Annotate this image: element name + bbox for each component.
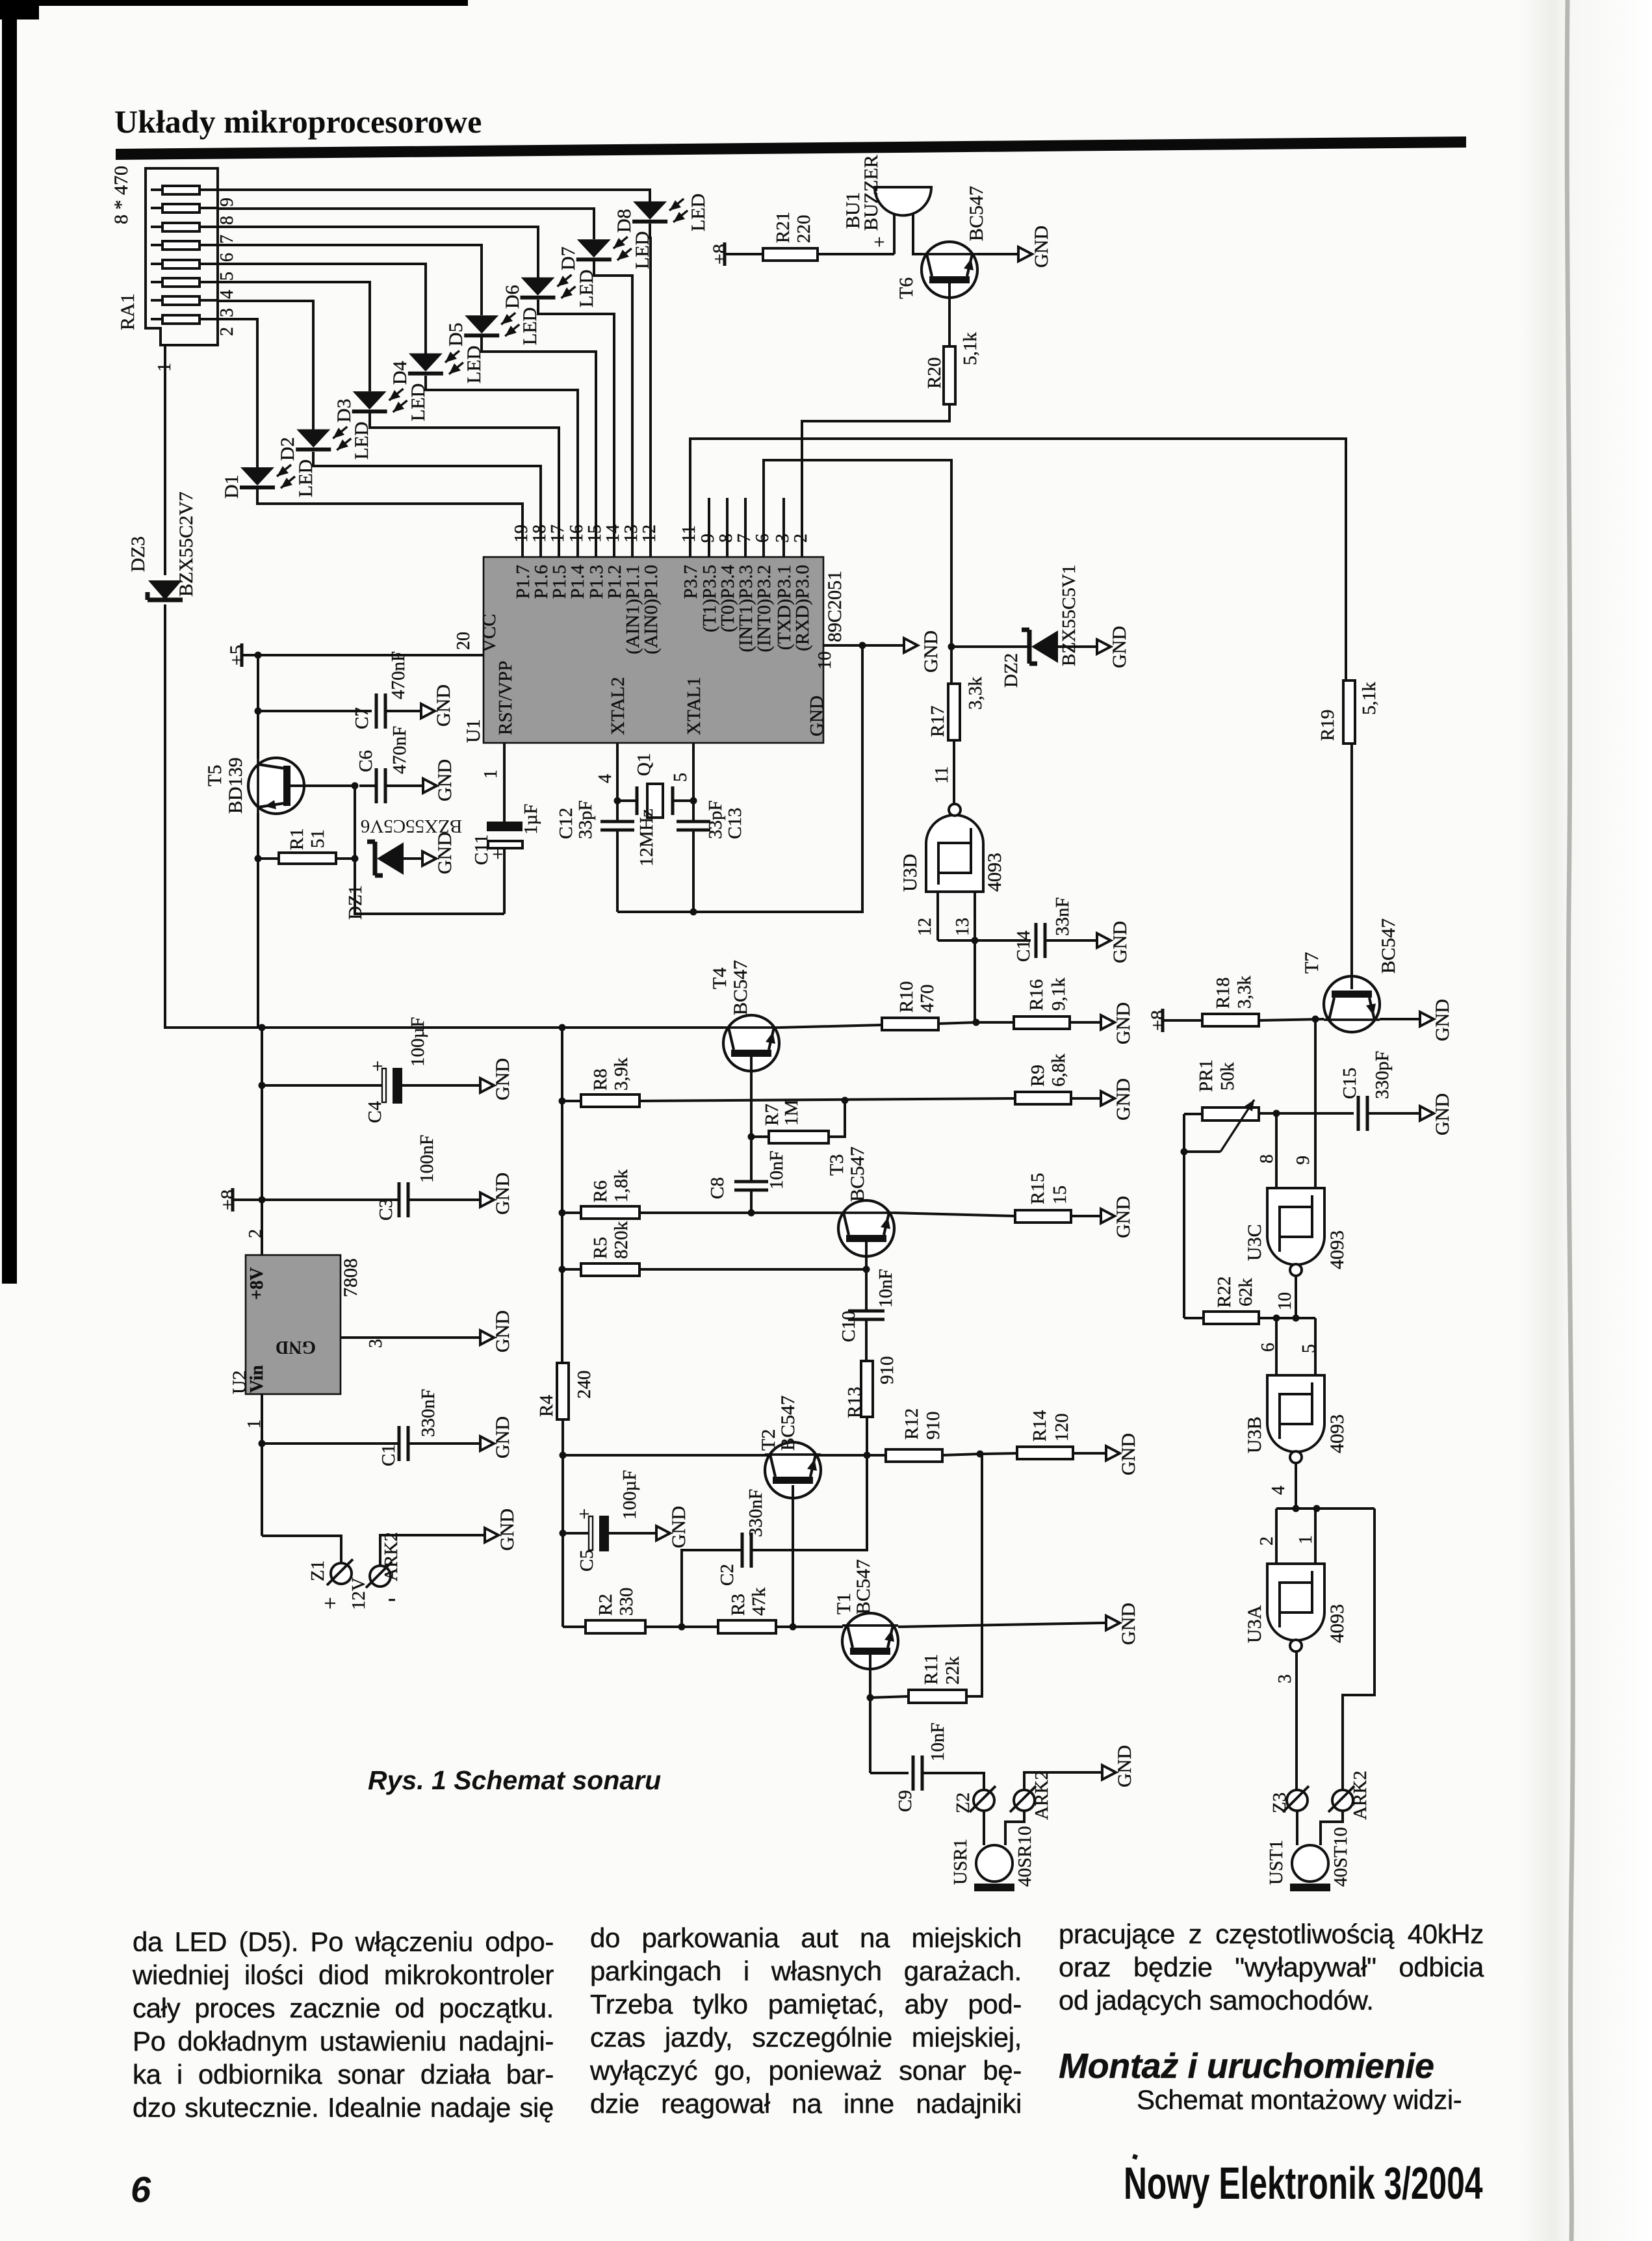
svg-text:10nF: 10nF: [927, 1722, 948, 1761]
svg-text:9: 9: [698, 534, 718, 543]
LED D4: [218, 264, 578, 557]
pin 15 number: [585, 525, 605, 543]
svg-text:62k: 62k: [1235, 1278, 1256, 1306]
svg-text:12: 12: [639, 525, 660, 543]
R19 to T7 base: [1350, 744, 1353, 989]
ground C4: [476, 1058, 513, 1100]
wire pin 6 to node: [764, 460, 951, 647]
resistor R14 120: [980, 1410, 1102, 1459]
svg-text:GND: GND: [1118, 1433, 1139, 1475]
+8 supply right: [1147, 1009, 1202, 1032]
svg-text:GND: GND: [497, 1509, 518, 1551]
svg-text:C12: C12: [556, 808, 576, 839]
ground DZ2: [1093, 626, 1130, 668]
pin 14 number: [603, 525, 623, 543]
svg-text:U3C: U3C: [1244, 1224, 1265, 1261]
svg-text:R7: R7: [762, 1104, 782, 1126]
svg-text:Z2: Z2: [953, 1793, 974, 1813]
svg-text:RA1: RA1: [117, 293, 138, 330]
pin1 to rail: [503, 848, 506, 914]
C15 row: [1259, 1110, 1354, 1117]
svg-text:D4: D4: [389, 361, 411, 385]
svg-text:2: 2: [246, 1229, 266, 1238]
gate U3B 4093: [1244, 1375, 1348, 1463]
capacitor C15 330pF: [1339, 1051, 1416, 1131]
pin 6 label: [753, 534, 773, 543]
svg-text:GND: GND: [1118, 1603, 1139, 1645]
svg-text:89C2051: 89C2051: [824, 571, 845, 642]
svg-text:GND: GND: [276, 1337, 316, 1357]
IC U2 7808: [229, 1255, 361, 1394]
resistor R12 910: [886, 1408, 984, 1462]
svg-text:R11: R11: [921, 1654, 942, 1685]
svg-text:+: +: [493, 844, 504, 865]
svg-text:2: 2: [1257, 1536, 1277, 1546]
wire C6 to R1 node: [352, 786, 359, 862]
svg-text:ARK2: ARK2: [1031, 1770, 1052, 1820]
svg-text:R2: R2: [595, 1594, 616, 1616]
T3 emitter to R15: [894, 1213, 1015, 1216]
pin 13 number: [621, 525, 641, 543]
header rule: [116, 136, 1466, 160]
svg-text:8: 8: [1257, 1154, 1277, 1163]
svg-text:BC547: BC547: [847, 1146, 868, 1202]
svg-text:40ST10: 40ST10: [1330, 1827, 1351, 1887]
svg-text:50k: 50k: [1217, 1062, 1238, 1091]
svg-text:XTAL2: XTAL2: [608, 677, 628, 736]
svg-text:4093: 4093: [1326, 1230, 1348, 1269]
svg-text:BD139: BD139: [225, 757, 246, 814]
svg-text:5,1k: 5,1k: [960, 332, 981, 365]
body text column 1: [133, 1925, 554, 2124]
svg-text:C9: C9: [895, 1790, 916, 1812]
LED D1: [218, 319, 523, 557]
svg-text:C4: C4: [365, 1101, 385, 1123]
svg-text:C15: C15: [1339, 1068, 1360, 1099]
pin 4 lead: [595, 743, 617, 801]
svg-text:12MHz: 12MHz: [636, 809, 657, 866]
svg-text:GND: GND: [1432, 999, 1453, 1041]
svg-text:330: 330: [616, 1588, 637, 1616]
potentiometer PR1 50k: [1184, 1059, 1259, 1152]
svg-text:T1: T1: [833, 1593, 855, 1614]
transducer USR1 40SR10: [950, 1811, 1035, 1891]
crystal Q1 12MHz: [614, 753, 697, 866]
svg-text:3: 3: [217, 308, 237, 317]
capacitor C8 10nF: [707, 1137, 787, 1217]
svg-text:8: 8: [716, 534, 736, 543]
svg-text:GND: GND: [1113, 1078, 1134, 1120]
ground pin10: [815, 630, 942, 673]
svg-text:C3: C3: [376, 1198, 396, 1221]
terminal Z2: [953, 1786, 996, 1813]
ground Z2: [1098, 1745, 1135, 1787]
pin 12 number: [639, 525, 660, 543]
transistor T5 BD139: [204, 757, 304, 814]
svg-text:R1: R1: [287, 828, 307, 850]
svg-text:100nF: 100nF: [417, 1135, 437, 1183]
transistor T3 BC547: [826, 1146, 894, 1256]
LED D8: [218, 190, 709, 557]
wire C14 node down: [974, 940, 976, 1022]
svg-text:4: 4: [1269, 1486, 1289, 1495]
terminal Z3: [1269, 1786, 1309, 1813]
pin 3 stub: [773, 498, 793, 557]
svg-text:T2: T2: [758, 1429, 779, 1451]
svg-text:10nF: 10nF: [875, 1269, 896, 1308]
svg-text:910: 910: [923, 1412, 944, 1440]
svg-text:470nF: 470nF: [389, 726, 410, 774]
T5 base wire: [290, 783, 359, 790]
pin 19 number: [511, 525, 532, 543]
svg-text:10: 10: [815, 651, 835, 669]
svg-text:33nF: 33nF: [1052, 897, 1073, 936]
svg-text:UST1: UST1: [1266, 1840, 1287, 1885]
svg-text:13: 13: [621, 525, 641, 543]
svg-text:VCC: VCC: [479, 614, 500, 653]
pin 9 stub: [698, 498, 718, 557]
LED D3: [218, 282, 559, 557]
svg-text:C1: C1: [378, 1444, 399, 1466]
svg-text:1,8k: 1,8k: [611, 1169, 632, 1202]
ground Z1: [481, 1509, 518, 1551]
T1 emitter wire: [898, 1623, 1102, 1627]
buzzer BU1: [842, 155, 931, 254]
resistor R6 1,8k: [562, 1169, 838, 1219]
+5 supply: [226, 643, 484, 667]
pin 16 number: [567, 525, 587, 543]
capacitor C9 10nF: [870, 1722, 984, 1812]
svg-text:33pF: 33pF: [575, 800, 596, 839]
svg-text:C8: C8: [707, 1177, 728, 1199]
wire pin 11 to R19: [690, 439, 1346, 680]
ground U2: [476, 1310, 513, 1353]
svg-text:GND: GND: [1114, 1745, 1135, 1787]
gate U3C 4093: [1244, 1188, 1348, 1276]
svg-text:D5: D5: [445, 322, 467, 346]
svg-text:D3: D3: [333, 398, 355, 422]
svg-text:D1: D1: [221, 474, 242, 499]
svg-text:GND: GND: [492, 1058, 513, 1100]
ground T6: [1014, 226, 1052, 268]
svg-text:330pF: 330pF: [1372, 1051, 1393, 1099]
svg-text:Z3: Z3: [1269, 1793, 1290, 1813]
svg-text:R19: R19: [1317, 710, 1338, 741]
U2 pin1 lead: [244, 1394, 266, 1536]
svg-text:2: 2: [217, 327, 237, 336]
svg-text:GND: GND: [1109, 626, 1130, 668]
resistor R16 9,1k: [976, 978, 1097, 1029]
pin 11 of U3D label: [932, 766, 952, 784]
wire DZ1 node to pin1 rail: [355, 859, 504, 914]
svg-text:3: 3: [366, 1339, 386, 1348]
svg-text:1M: 1M: [781, 1100, 802, 1126]
svg-text:USR1: USR1: [950, 1839, 971, 1885]
svg-text:+: +: [874, 231, 885, 253]
transducer UST1 40ST10: [1266, 1811, 1351, 1891]
svg-text:5: 5: [671, 773, 691, 782]
svg-text:120: 120: [1052, 1414, 1072, 1442]
svg-text:GND: GND: [1109, 921, 1131, 963]
svg-text:470: 470: [917, 985, 938, 1013]
svg-text:R21: R21: [773, 212, 794, 243]
svg-text:T6: T6: [896, 278, 917, 299]
svg-text:ARK2: ARK2: [381, 1532, 402, 1581]
pin 17 number: [548, 525, 568, 543]
svg-text:47k: 47k: [749, 1587, 769, 1616]
svg-text:GND: GND: [668, 1506, 690, 1548]
scan edge black bar left: [2, 0, 17, 1284]
U3D input legs: [915, 892, 975, 940]
svg-text:12V: 12V: [348, 1577, 369, 1610]
feedback wire: [1343, 1509, 1375, 1790]
svg-text:1: 1: [1296, 1535, 1316, 1544]
ground C3: [476, 1172, 513, 1215]
figure caption: [368, 1765, 661, 1796]
T2 rail: [560, 1452, 886, 1459]
resistor R10 470: [882, 981, 980, 1030]
resistor R20 5,1k: [924, 283, 981, 404]
transistor T2 BC547: [758, 1395, 821, 1498]
page number: [131, 2168, 151, 2210]
svg-text:T5: T5: [204, 765, 226, 786]
svg-text:5,1k: 5,1k: [1359, 682, 1380, 715]
svg-text:DZ3: DZ3: [127, 536, 149, 572]
svg-text:40SR10: 40SR10: [1014, 1826, 1035, 1887]
svg-text:R8: R8: [590, 1069, 611, 1091]
gate U3D 4093: [899, 740, 1005, 892]
svg-text:20: 20: [454, 632, 474, 650]
pin 8 stub: [716, 498, 736, 557]
LED D2: [218, 301, 541, 557]
resistor R7 1M: [751, 1100, 845, 1143]
pin 11 label: [679, 525, 699, 543]
svg-text:11: 11: [932, 766, 952, 784]
svg-text:+: +: [324, 1592, 336, 1616]
scan edge black strip top: [0, 0, 468, 6]
svg-text:3: 3: [1275, 1674, 1295, 1683]
svg-text:D8: D8: [613, 209, 635, 233]
svg-text:GND: GND: [1113, 1002, 1134, 1044]
ground C7: [417, 684, 454, 727]
U3C input legs: [1257, 1019, 1315, 1188]
svg-text:7808: 7808: [340, 1258, 361, 1297]
svg-text:1: 1: [244, 1419, 265, 1429]
svg-text:D6: D6: [502, 285, 523, 309]
ground DZ1: [419, 832, 456, 874]
svg-text:16: 16: [567, 525, 587, 543]
svg-text:5: 5: [1299, 1344, 1319, 1353]
svg-text:BC547: BC547: [966, 186, 987, 241]
svg-text:Z1: Z1: [307, 1561, 328, 1581]
IC U1 89C2051: [463, 557, 845, 743]
svg-text:GND: GND: [492, 1172, 513, 1215]
svg-text:GND: GND: [492, 1310, 513, 1353]
svg-text:5: 5: [217, 272, 237, 281]
svg-text:19: 19: [511, 525, 532, 543]
svg-text:XTAL1: XTAL1: [684, 677, 704, 736]
svg-text:D2: D2: [277, 437, 298, 461]
ground R9: [1097, 1078, 1134, 1120]
svg-text:100µF: 100µF: [619, 1470, 640, 1520]
svg-text:9,1k: 9,1k: [1048, 978, 1069, 1011]
resistor R1 51: [255, 828, 355, 864]
svg-text:(INT0)P3.2: (INT0)P3.2: [754, 565, 775, 653]
resistor R22 62k: [1184, 1276, 1315, 1324]
svg-text:T3: T3: [826, 1154, 847, 1176]
svg-text:12: 12: [915, 918, 935, 936]
wire to C7: [255, 655, 372, 715]
T4 emitter to R10: [779, 1025, 882, 1028]
zener DZ3: [127, 491, 197, 600]
U3D input rail: [938, 937, 1031, 944]
resistor R3 47k: [682, 1587, 843, 1633]
svg-text:ARK2: ARK2: [1350, 1770, 1371, 1820]
svg-text:C10: C10: [838, 1311, 859, 1342]
zener DZ2 BZX55C5V1: [1001, 565, 1093, 688]
svg-text:(AIN0)P1.0: (AIN0)P1.0: [641, 565, 662, 654]
svg-text:6,8k: 6,8k: [1048, 1054, 1069, 1087]
svg-text:GND: GND: [433, 684, 454, 727]
terminal ARK2 Z3: [1328, 1770, 1371, 1820]
svg-text:8: 8: [217, 216, 237, 225]
LED D7: [218, 209, 653, 557]
svg-text:LED: LED: [688, 194, 709, 231]
svg-text:DZ2: DZ2: [1001, 653, 1022, 688]
transistor T4 BC547: [709, 960, 779, 1071]
svg-text:910: 910: [877, 1356, 897, 1385]
svg-text:GND: GND: [920, 630, 942, 673]
svg-text:BC547: BC547: [853, 1559, 874, 1614]
svg-text:R4: R4: [536, 1395, 557, 1417]
capacitor C5 100uF: [563, 1470, 652, 1572]
body text column 3: [1059, 1917, 1484, 2116]
capacitor C10 10nF: [838, 1269, 896, 1361]
ground C15: [1416, 1093, 1453, 1135]
pin 5 lead: [671, 743, 693, 801]
capacitor C1 330nF: [262, 1389, 476, 1466]
svg-text:R20: R20: [924, 357, 945, 389]
U2 pin 3 wire: [341, 1338, 476, 1348]
svg-text:R3: R3: [728, 1594, 749, 1616]
pin 20 label: [454, 632, 474, 650]
svg-text:P3.7: P3.7: [680, 565, 701, 599]
wire T5 emitter down: [257, 813, 259, 1028]
capacitor C3 100nF: [262, 1135, 476, 1221]
pin 18 number: [530, 525, 550, 543]
transistor T6 BC547: [896, 186, 987, 299]
ground T7: [1416, 999, 1453, 1041]
capacitor C6 470nF: [355, 726, 419, 803]
svg-text:6: 6: [217, 253, 237, 262]
resistor R18 3,3k: [1202, 976, 1324, 1026]
svg-text:BC547: BC547: [777, 1395, 799, 1451]
svg-text:BUZZER: BUZZER: [860, 155, 882, 231]
svg-text:240: 240: [574, 1371, 595, 1399]
svg-text:4093: 4093: [984, 853, 1005, 892]
T2 base lead: [792, 1485, 794, 1627]
resistor R19 5,1k: [1317, 680, 1380, 744]
svg-text:100µF: 100µF: [407, 1017, 428, 1067]
U3A output: [1275, 1652, 1297, 1790]
svg-text:14: 14: [603, 525, 623, 543]
svg-text:R5: R5: [590, 1237, 611, 1259]
terminal ARK2 Z2: [1010, 1770, 1098, 1820]
svg-text:-: -: [388, 1585, 396, 1611]
node pin6/R17/DZ2: [948, 643, 1030, 651]
svg-text:R17: R17: [927, 706, 948, 737]
svg-text:15: 15: [1050, 1185, 1070, 1204]
svg-text:R13: R13: [844, 1387, 865, 1418]
C5 node: [560, 1455, 567, 1627]
resistor R11 22k: [870, 1454, 982, 1703]
ground C5: [652, 1506, 690, 1548]
svg-text:R16: R16: [1026, 979, 1047, 1011]
ground R15: [1097, 1196, 1134, 1238]
svg-text:PR1: PR1: [1196, 1059, 1217, 1092]
svg-text:GND: GND: [1432, 1093, 1453, 1135]
svg-text:T4: T4: [709, 968, 730, 989]
svg-text:18: 18: [530, 525, 550, 543]
svg-text:R12: R12: [901, 1408, 922, 1440]
svg-text:Q1: Q1: [634, 753, 654, 776]
svg-text:7: 7: [734, 534, 755, 543]
svg-text:R9: R9: [1027, 1065, 1048, 1087]
svg-text:BZX55C2V7: BZX55C2V7: [175, 491, 197, 597]
resistor R21 220: [763, 212, 894, 261]
svg-text:+: +: [372, 1056, 383, 1077]
capacitor C12 33pF: [556, 800, 634, 912]
svg-text:R18: R18: [1213, 978, 1233, 1009]
svg-text:3,3k: 3,3k: [965, 677, 986, 710]
svg-text:C2: C2: [717, 1564, 738, 1586]
svg-text:C13: C13: [725, 808, 745, 839]
svg-text:3,3k: 3,3k: [1234, 976, 1255, 1009]
zener DZ1 BZX55C5V6: [345, 816, 462, 920]
svg-text:GND: GND: [1031, 226, 1052, 268]
wire rail to C4: [259, 1028, 266, 1255]
+8 supply mid: [217, 1188, 262, 1211]
right page-curl shading: [1521, 0, 1652, 2241]
capacitor C7 470nF: [352, 651, 417, 729]
ground T1: [1102, 1603, 1139, 1645]
svg-text:9: 9: [1293, 1156, 1313, 1165]
svg-text:BC547: BC547: [1378, 918, 1399, 974]
wire RA1 pin1 to rail: [165, 345, 262, 1028]
T7 emitter wire: [1380, 1018, 1416, 1020]
pin 2 label: [791, 534, 811, 543]
ground C14: [1093, 921, 1131, 963]
svg-text:GND: GND: [807, 695, 827, 736]
svg-text:R22: R22: [1214, 1276, 1235, 1308]
svg-text:C14: C14: [1013, 930, 1034, 962]
svg-text:1: 1: [481, 770, 501, 779]
svg-text:BZX55C5V1: BZX55C5V1: [1059, 565, 1079, 666]
ground C1: [476, 1416, 513, 1458]
terminal ARK2 power: [366, 1532, 481, 1611]
svg-text:U3D: U3D: [899, 854, 921, 892]
svg-text:(RXD)P3.0: (RXD)P3.0: [792, 565, 813, 651]
capacitor C11 1uF: [471, 804, 541, 865]
resistor R5 820k: [562, 1221, 870, 1276]
svg-text:9: 9: [217, 198, 237, 207]
svg-text:R10: R10: [896, 981, 917, 1013]
svg-text:4: 4: [217, 290, 237, 299]
svg-text:GND: GND: [1113, 1196, 1134, 1238]
resistor R15 15: [1015, 1173, 1097, 1223]
resistor network RA1 (8*470): [110, 166, 218, 372]
svg-text:330nF: 330nF: [745, 1489, 766, 1537]
